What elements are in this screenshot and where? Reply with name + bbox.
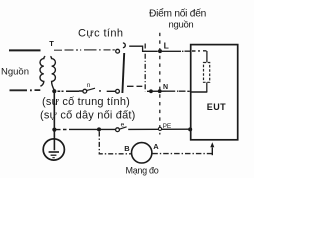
earth fault switch blade [119, 127, 126, 129]
svg-text:B: B [124, 144, 130, 153]
ganged link bar [122, 53, 124, 93]
node N [158, 89, 162, 93]
transformer T [40, 39, 55, 90]
wire PE rail left [56, 128, 116, 130]
svg-text:n: n [87, 82, 91, 89]
wire A to EUT dash-dot [152, 153, 212, 155]
earth electrode [43, 139, 64, 160]
svg-text:Mạng đo: Mạng đo [126, 166, 159, 176]
wire line-top-left [9, 49, 41, 51]
terminal circle PE [158, 127, 161, 130]
wire to polarity N-pole [99, 90, 116, 92]
wire neutral rail to switch n [58, 90, 84, 92]
polarity switch mating arc contact [123, 43, 125, 48]
svg-text:Nguồn: Nguồn [1, 67, 29, 78]
junction dot on N wire [149, 89, 153, 93]
svg-text:A: A [153, 142, 159, 151]
node L [158, 49, 162, 53]
svg-text:T: T [49, 39, 54, 48]
wire measuring-network branch dash-dot [99, 132, 131, 154]
svg-text:nguồn: nguồn [169, 19, 194, 30]
junction dot transformer bottom [52, 89, 56, 93]
wire N to EUT dash-dot [166, 90, 190, 92]
svg-text:PE: PE [163, 123, 172, 130]
wire N short segment [147, 90, 166, 92]
wire EUT bottom internal [191, 91, 208, 93]
svg-text:e: e [121, 121, 125, 128]
wire dashed crossover [127, 85, 142, 87]
polarity switch contact N-pole [116, 89, 120, 93]
svg-text:Điểm nối đến: Điểm nối đến [149, 7, 206, 19]
EUT internal impedance [204, 51, 210, 92]
polarity switch contact L-pole [116, 49, 120, 53]
measuring network circle [132, 143, 152, 163]
wire top dashed to polarity switch [54, 49, 115, 51]
pointer dashed line to connection points [159, 33, 161, 135]
junction dot PE branch [97, 127, 101, 131]
wire L to EUT dash-dot [162, 50, 207, 53]
junction dot PE at EUT wall [188, 127, 192, 131]
svg-text:L: L [164, 40, 169, 50]
svg-text:Cực tính: Cực tính [78, 28, 123, 40]
junction dot PE tap [52, 128, 56, 132]
wire neutral-bottom-left dash-dot [10, 89, 41, 91]
wire from arc contact to L node [129, 46, 158, 51]
EUT box [191, 45, 238, 140]
wire ground vertical [53, 91, 55, 150]
svg-text:(sự cố trung tính): (sự cố trung tính) [42, 96, 130, 108]
svg-text:EUT: EUT [207, 102, 226, 112]
svg-text:N: N [163, 84, 168, 91]
switch n blade [87, 88, 95, 90]
earth fault switch contact [116, 128, 120, 132]
wire dash-dot switch frame [144, 44, 146, 92]
arrow into EUT bottom [210, 142, 214, 155]
switch n contact [83, 89, 87, 93]
wire PE rail right [128, 128, 190, 130]
